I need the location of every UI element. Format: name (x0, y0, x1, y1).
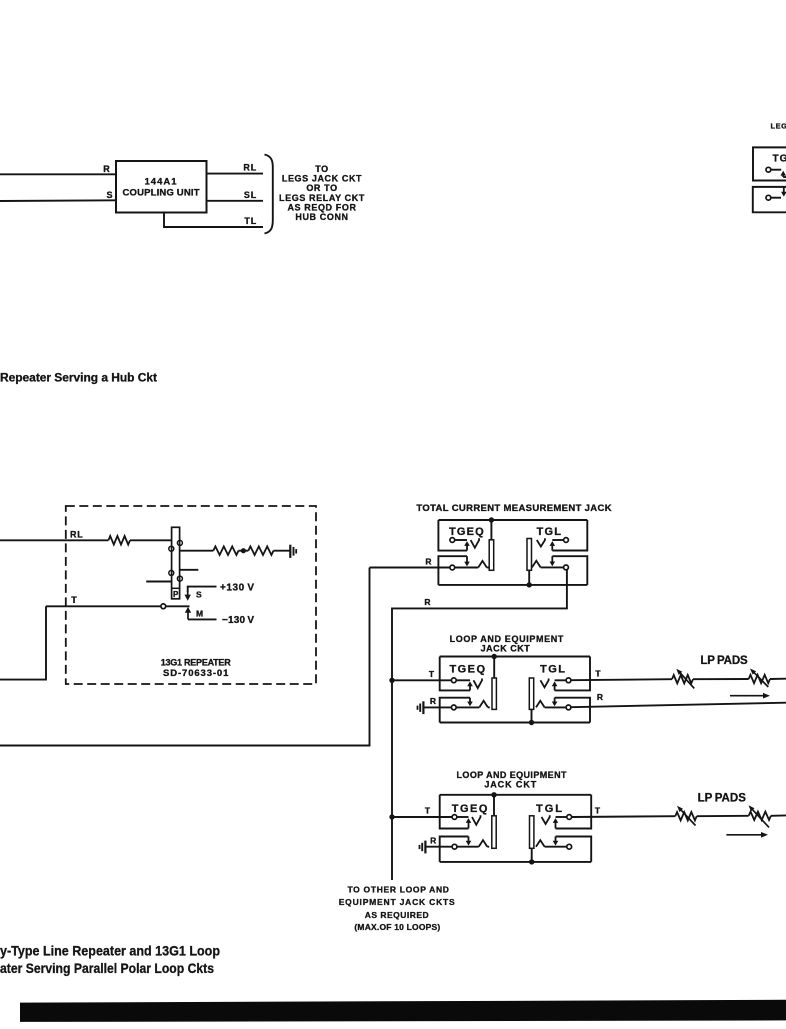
node J1 sleeve bottom junction (527, 582, 532, 587)
contact arrow J1 TGL tip (550, 541, 556, 550)
jack J1 TGL ring lead (541, 566, 564, 568)
jack J2 TGL tip spring V (540, 679, 548, 688)
wire T out of J2 (571, 679, 672, 680)
jack J3 TGEQ upper notch (440, 795, 469, 829)
wire LP pads out row2 (770, 678, 786, 680)
wire T into repeater (46, 605, 161, 607)
svg-text:TGEQ: TGEQ (450, 663, 486, 675)
terminal J1 TGEQ tip (450, 538, 455, 543)
LP pad arrow 2 row3 (749, 805, 770, 827)
direction arrow row3 (726, 832, 768, 838)
direction arrow row2 (730, 693, 770, 699)
terminal J3 TGL ring (567, 844, 572, 849)
wire bias R2 to ground (274, 550, 291, 552)
node J1 sleeve top junction (489, 517, 494, 522)
node J2 sleeve bottom junction (529, 720, 534, 725)
contact arrow upper TG jack (780, 171, 786, 177)
contact arrow J1 TGL ring (550, 556, 556, 566)
svg-text:LEG: LEG (771, 122, 786, 131)
terminal J2 TGL ring (566, 705, 571, 710)
ground bias network (290, 545, 296, 558)
contact arrow lower TG jack (781, 187, 786, 197)
wire S input to coupling unit (0, 199, 116, 202)
terminal J3 TGEQ ring (452, 844, 457, 849)
terminal J2 TGL tip (566, 678, 571, 683)
wire relay to bias resistors (180, 550, 214, 552)
wire T down to lower branch (0, 606, 46, 679)
jack J3 TGEQ tip spring V (472, 815, 481, 825)
svg-text:S: S (106, 190, 112, 200)
svg-text:R: R (430, 835, 436, 845)
jack J2 TGL ring lead (545, 706, 567, 708)
jack J2 TGL ring spring bump (536, 701, 545, 708)
jack J3 box top edge (440, 794, 592, 796)
wire LP pads out row3 (771, 814, 786, 816)
contact arrow M (up) (185, 607, 191, 620)
node bias resistor junction (241, 548, 246, 553)
relay winding loop lower right (177, 576, 182, 581)
jack J1 TGEQ upper notch (438, 520, 467, 551)
terminal T break contact (161, 604, 166, 609)
wire upper TG jack (771, 169, 781, 171)
jack J3 TGL tip spring V (542, 815, 550, 824)
jack J1 TGL plug sleeve (527, 539, 532, 571)
svg-text:ater Serving Parallel Polar Lo: ater Serving Parallel Polar Loop Ckts (0, 960, 214, 976)
svg-text:T: T (425, 806, 431, 816)
svg-text:+130 V: +130 V (220, 582, 254, 593)
terminal J2 TGEQ tip (451, 678, 456, 683)
jack J3 TGEQ tip lead (457, 816, 469, 818)
jack J3 TGL plug sleeve (530, 816, 534, 849)
LP pad resistor 1 row2 (672, 675, 693, 683)
svg-text:LP PADS: LP PADS (698, 792, 747, 804)
jack J1 TGEQ ring lead (455, 567, 479, 569)
svg-text:SL: SL (244, 190, 257, 200)
jack J1 TGEQ plug sleeve (489, 540, 494, 571)
jack J2 TGL plug sleeve (529, 678, 533, 709)
jack J1 TGL sleeve lead (528, 570, 530, 585)
jack J2 box bottom edge (440, 722, 590, 724)
svg-text:T: T (71, 595, 77, 605)
contact arrow J1 TGEQ ring (464, 556, 470, 566)
svg-text:T: T (595, 806, 601, 816)
node T branch to J3 (389, 814, 394, 819)
jack J3 box bottom edge (440, 861, 592, 863)
relay contact stub right (180, 569, 199, 571)
svg-text:144A1: 144A1 (145, 176, 178, 187)
terminal J3 TGEQ tip (452, 815, 457, 820)
jack J2 TGL tip lead (555, 679, 567, 681)
wire ground to J2 R (423, 706, 451, 708)
jack J1 TGL ring spring bump (532, 561, 541, 568)
LP pad arrow 1 row3 (677, 806, 696, 826)
node J3 sleeve bottom junction (529, 859, 534, 864)
svg-text:TGEQ: TGEQ (449, 526, 484, 538)
jack J3 TGEQ ring lead (457, 846, 479, 848)
jack J3 TGEQ sleeve lead (493, 795, 495, 816)
contact arrow J3 TGL tip (553, 818, 559, 828)
resistor RL winding series (108, 536, 130, 545)
wire between LP pads row3 (697, 815, 749, 817)
jack J1 TGL upper notch (552, 520, 587, 551)
node J3 sleeve top junction (491, 792, 496, 797)
svg-text:RL: RL (70, 529, 84, 539)
jack J3 TGL ring lead (545, 846, 567, 848)
svg-text:T: T (429, 669, 435, 679)
contact arrow J2 TGL ring (552, 698, 558, 707)
terminal J3 TGL tip (567, 815, 572, 820)
ground J3 R lead (420, 841, 426, 854)
wire RL resistor to relay (130, 539, 172, 541)
jack J3 TGL tip lead (556, 816, 567, 818)
svg-text:SD-70633-01: SD-70633-01 (163, 668, 229, 679)
svg-text:TL: TL (244, 216, 257, 226)
contact arrow J3 TGEQ ring (466, 837, 472, 846)
svg-text:Repeater Serving a Hub Ckt: Repeater Serving a Hub Ckt (0, 371, 157, 385)
jack J3 TGEQ ring spring tail (487, 846, 489, 848)
jack J2 TGEQ ring spring bump (479, 701, 488, 708)
relay contact stub left (146, 581, 171, 583)
jack J3 TGL sleeve lead (531, 848, 533, 862)
wire RL output (207, 173, 264, 175)
jack J2 TGL upper notch (555, 657, 590, 691)
terminal J1 TGEQ ring (450, 565, 455, 570)
contact arrow J2 TGEQ ring (467, 698, 473, 707)
wire TL output (164, 213, 263, 228)
jack J1 box bottom edge (438, 584, 587, 586)
wire T contact to M (166, 605, 190, 607)
LP pad resistor 1 row3 (675, 812, 696, 820)
resistor bias R2 (248, 546, 273, 555)
jack J3 TGEQ ring spring bump (479, 840, 488, 847)
jack J2 TGEQ upper notch (440, 657, 470, 691)
jack J3 TGL lower notch (556, 837, 592, 862)
terminal lower TG jack (766, 195, 771, 200)
black separator bar (20, 1000, 786, 1022)
jack J2 TGEQ ring spring tail (488, 706, 490, 708)
svg-text:TGL: TGL (536, 803, 562, 815)
jack J2 TGEQ lower notch (440, 698, 470, 723)
wire RL into repeater (0, 539, 108, 541)
jack J3 TGEQ plug sleeve (492, 816, 496, 849)
jack J1 TGEQ ring spring bump (478, 561, 487, 568)
jack J2 TGL sleeve lead (531, 709, 533, 722)
svg-text:TGL: TGL (540, 663, 565, 675)
jack J2 TGEQ sleeve lead (493, 657, 495, 679)
LP pad arrow 2 row2 (750, 669, 768, 688)
svg-text:LP PADS: LP PADS (700, 655, 748, 667)
wire between bias resistors (239, 550, 249, 552)
wire T into J3 (392, 816, 452, 818)
svg-text:T: T (595, 669, 601, 679)
partial jack box TG lower (753, 187, 786, 212)
svg-text:COUPLING UNIT: COUPLING UNIT (123, 187, 200, 198)
wire SL output (207, 200, 264, 202)
relay P compartment divider (172, 587, 180, 589)
contact arrow S (down) (185, 591, 191, 601)
svg-text:R: R (597, 692, 603, 702)
partial jack box TG upper (753, 147, 786, 180)
svg-text:TGEQ: TGEQ (452, 803, 488, 815)
wire M contact to -130V (188, 618, 217, 620)
jack J1 TGEQ sleeve lead (490, 520, 492, 540)
svg-text:−130 V: −130 V (222, 615, 254, 626)
jack J1 TGEQ tip spring V (471, 538, 480, 548)
jack J1 TGEQ ring spring tail (487, 567, 489, 569)
notch upper TG jack (783, 176, 786, 178)
node T branch to J2 (389, 678, 394, 683)
svg-text:P: P (173, 590, 179, 599)
jack J2 TGEQ ring lead (456, 706, 479, 708)
svg-text:R: R (424, 597, 430, 607)
terminal J1 TGL tip (564, 538, 569, 543)
LP pad arrow 1 row2 (676, 669, 694, 689)
relay winding loop upper right (177, 540, 182, 545)
svg-text:TG: TG (773, 153, 786, 164)
contact arrow J1 TGEQ tip (464, 541, 470, 551)
jack J1 box top edge (438, 519, 587, 521)
svg-text:13G1 REPEATER: 13G1 REPEATER (161, 657, 232, 667)
contact arrow J3 TGL ring (553, 837, 559, 846)
wire between LP pads row2 (693, 678, 749, 680)
wire R feeder bottom (0, 568, 370, 746)
jack J1 TGL lower notch (552, 556, 587, 585)
LP pad resistor 2 row3 (749, 812, 771, 820)
ground J2 R lead (418, 701, 424, 714)
jack J2 TGEQ tip lead (456, 679, 470, 681)
terminal J1 TGL ring (564, 565, 569, 570)
jack J2 TGL lower notch (555, 698, 590, 723)
polar relay armature bar (172, 527, 180, 599)
terminal upper TG jack (766, 167, 771, 172)
relay winding loop lower left (169, 570, 174, 575)
wire R input to coupling unit (0, 173, 116, 175)
wire T into J2 (392, 679, 452, 681)
svg-text:S: S (196, 590, 202, 600)
svg-text:y-Type Line Repeater and 13G1: y-Type Line Repeater and 13G1 Loop (0, 942, 220, 958)
dashed box 13G1 repeater (66, 506, 316, 684)
brace for legs connections (265, 155, 273, 234)
terminal J2 TGEQ ring (451, 705, 456, 710)
resistor bias R1 (213, 546, 238, 555)
jack J1 TGEQ tip lead (455, 539, 467, 541)
svg-text:R: R (425, 556, 431, 566)
wire +130V to S contact (188, 587, 217, 592)
jack J1 TGEQ lower notch (438, 556, 467, 585)
jack J1 TGL tip spring V (537, 538, 545, 546)
relay winding loop upper left (169, 546, 174, 551)
node J2 sleeve top junction (492, 654, 497, 659)
svg-text:R: R (430, 696, 436, 706)
jack J3 TGL upper notch (556, 795, 592, 829)
wire T out of J3 (572, 815, 676, 818)
wire R out of J1 (392, 570, 567, 880)
wire lower TG jack (771, 197, 781, 199)
svg-text:RL: RL (243, 163, 257, 173)
jack J3 TGEQ lower notch (440, 837, 469, 862)
jack J2 TGEQ tip spring V (474, 679, 483, 689)
LP pad resistor 2 row2 (749, 675, 770, 683)
contact arrow J2 TGEQ tip (467, 681, 473, 690)
wire ground to J3 R (425, 846, 452, 848)
svg-text:TOTAL CURRENT MEASUREMENT JACK: TOTAL CURRENT MEASUREMENT JACK (416, 503, 611, 514)
svg-text:R: R (103, 164, 110, 174)
jack J3 TGL ring spring bump (536, 840, 545, 847)
wire R out of J2 (571, 703, 786, 708)
svg-text:TGL: TGL (537, 526, 562, 538)
jack J2 box top edge (440, 656, 590, 658)
contact arrow J3 TGEQ tip (466, 818, 472, 828)
wire R into jack J1 (370, 567, 451, 569)
contact arrow J2 TGL tip (552, 681, 558, 690)
jack J2 TGEQ plug sleeve (492, 678, 496, 709)
jack J1 TGL tip lead (552, 539, 563, 541)
coupling unit 144A1 box (116, 161, 207, 213)
svg-text:M: M (196, 609, 203, 619)
